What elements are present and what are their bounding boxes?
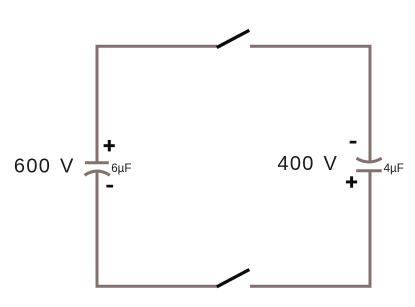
polarity - (C1 bottom) (106, 185, 113, 188)
svg-text:6µF: 6µF (111, 162, 131, 175)
capacitor C2 curved (negative) plate (356, 158, 381, 162)
wire top-right and right side down to capacitor C2 curved plate (250, 46, 370, 162)
switch S2 (bottom, open) (217, 270, 250, 287)
polarity + (C2 bottom) (346, 176, 357, 187)
wire top-left and left side down to capacitor C1 top plate (97, 46, 217, 162)
switch S1 (top, open) (217, 30, 250, 47)
capacitor C1 curved (negative) plate (85, 171, 110, 175)
label 4µF (C2 value) (384, 162, 404, 175)
svg-text:4µF: 4µF (384, 162, 404, 175)
svg-text:600 V: 600 V (14, 156, 75, 178)
polarity + (C1 top) (104, 140, 115, 151)
wire bottom-right from capacitor C2 bottom plate down and left (250, 171, 370, 286)
polarity - (C2 top) (350, 141, 357, 144)
capacitor C2 straight (positive) plate (356, 169, 382, 172)
capacitor C1 straight (positive) plate (85, 161, 109, 164)
label 6µF (C1 value) (111, 162, 131, 175)
wire bottom-left from capacitor C1 curved plate down and right (97, 171, 217, 286)
label 600 V (left source voltage) (14, 156, 75, 178)
svg-text:400 V: 400 V (277, 153, 338, 175)
label 400 V (right source voltage) (277, 153, 338, 175)
